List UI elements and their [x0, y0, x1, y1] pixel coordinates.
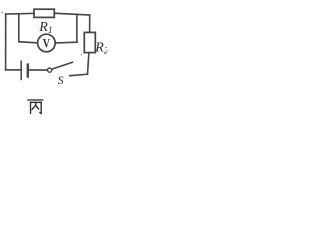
wire top-right segment [54, 13, 89, 15]
wire battery to switch [29, 69, 48, 71]
svg-text:V: V [43, 35, 51, 50]
bing frame top bar [31, 101, 42, 103]
background [0, 0, 107, 118]
svg-text:S: S [58, 75, 64, 87]
bing inner left-falling stroke [32, 105, 36, 109]
switch pivot circle [48, 68, 52, 72]
wire left vertical [5, 14, 7, 70]
voltmeter U1 circle [38, 34, 56, 52]
wire right vertical lower [88, 53, 89, 75]
wire inner-right horizontal [55, 41, 77, 44]
wire bottom-right stub [70, 74, 88, 76]
stray mark left edge [1, 11, 3, 13]
bing top horizontal stroke [28, 99, 43, 101]
wire right vertical upper [89, 15, 91, 32]
bing inner stem [35, 102, 37, 105]
wire inner-right vertical [76, 15, 78, 43]
battery long plate [20, 61, 22, 79]
battery short plate [27, 65, 29, 77]
wire top-left segment [6, 12, 35, 15]
resistor R1 [34, 9, 54, 17]
bing frame right vertical with hook [40, 102, 41, 113]
hanzi Bing caption [28, 100, 43, 113]
wire bottom-left segment [6, 69, 21, 71]
switch lever [52, 62, 73, 69]
bing inner right-falling stroke [36, 105, 39, 109]
resistor R2 [84, 32, 95, 52]
wire inner-left vertical [18, 14, 20, 42]
bing frame left vertical [30, 102, 32, 113]
wire inner-left horizontal [19, 42, 38, 43]
stray speck near R2 [81, 53, 82, 56]
